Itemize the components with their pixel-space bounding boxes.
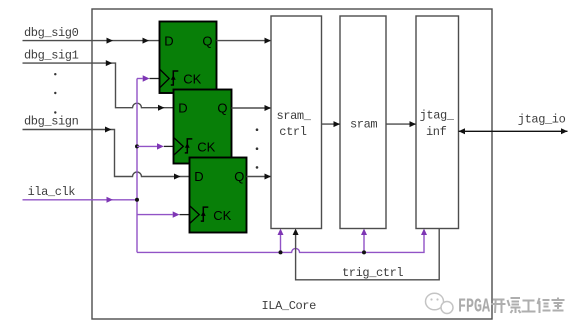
block jtag_inf: [416, 16, 459, 229]
wire FF2 Q output: [232, 105, 272, 111]
svg-text:dbg_sign: dbg_sign: [24, 115, 79, 129]
svg-text:dbg_sig1: dbg_sig1: [24, 49, 79, 63]
svg-text:ILA_Core: ILA_Core: [262, 299, 317, 313]
flip-flop FF3 (D register): [190, 158, 247, 233]
wire clock branch to FF2 CK: [137, 143, 174, 149]
node ellipsis dots middle: [256, 128, 259, 168]
svg-text:CK: CK: [213, 208, 231, 223]
junction dot clock/FF2 branch: [135, 144, 139, 148]
wire sram_ctrl to sram: [322, 121, 341, 127]
wire clock stub into sram_ctrl: [278, 229, 284, 253]
watermark text (CJK strokes): [492, 298, 565, 314]
arrowhead clock into jtag_inf: [421, 229, 427, 236]
svg-text:D: D: [164, 33, 173, 48]
wire FF1 Q output: [217, 38, 272, 44]
wire clock branch to FF1 CK: [137, 75, 160, 81]
block sram_ctrl: [271, 16, 322, 229]
block sram: [340, 16, 386, 229]
wire clock trunk vertical (purple): [136, 79, 138, 253]
svg-text:FPGA: FPGA: [458, 296, 490, 318]
wire dbg_sign: [23, 127, 190, 180]
node ellipsis dots left: [54, 73, 56, 114]
junction dot clock/sram: [362, 250, 366, 254]
wire sram to jtag_inf: [386, 121, 416, 127]
wire jtag_io bidirectional: [459, 128, 568, 134]
svg-text:CK: CK: [197, 140, 215, 155]
watermark icon (chat bubbles logo): [426, 293, 454, 313]
wire ila_clk (clock input, purple): [23, 197, 138, 203]
svg-text:dbg_sig0: dbg_sig0: [24, 26, 79, 40]
wire dbg_sig1: [23, 60, 174, 111]
svg-text:sram: sram: [350, 117, 377, 131]
svg-text:D: D: [178, 101, 187, 116]
svg-text:jtag_io: jtag_io: [518, 112, 566, 126]
svg-text:ila_clk: ila_clk: [28, 185, 76, 199]
svg-text:Q: Q: [202, 33, 212, 48]
flip-flop FF1 (D register): [160, 22, 217, 94]
svg-text:Q: Q: [234, 169, 244, 184]
wire clock bottom distribution (purple, hops over trig wire): [137, 235, 424, 252]
junction dot clock/sram_ctrl: [279, 250, 283, 254]
svg-text:D: D: [194, 169, 203, 184]
wire trig_ctrl feedback: [293, 229, 440, 280]
junction dot ila_clk / trunk: [135, 198, 139, 202]
wire FF3 Q output: [247, 174, 272, 180]
wire clock branch to FF3 CK: [137, 211, 190, 217]
flip-flop FF2 (D register): [174, 90, 232, 164]
svg-text:ctrl: ctrl: [279, 125, 306, 139]
outer box ILA_Core: [92, 9, 492, 319]
svg-text:trig_ctrl: trig_ctrl: [342, 266, 403, 280]
wire clock stub into sram: [361, 229, 367, 253]
svg-text:Q: Q: [217, 101, 227, 116]
svg-text:sram_: sram_: [277, 109, 312, 123]
svg-text:inf: inf: [426, 125, 447, 139]
wire dbg_sig0: [23, 38, 160, 44]
svg-text:jtag_: jtag_: [420, 108, 455, 122]
svg-text:CK: CK: [183, 72, 201, 87]
